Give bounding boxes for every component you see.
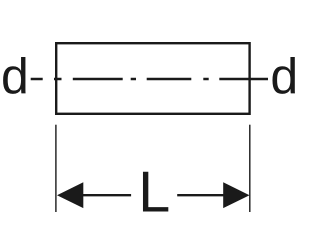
extension line left — [55, 125, 57, 212]
svg-text:L: L — [138, 160, 170, 224]
dimension arrow right — [223, 182, 249, 208]
dimension line right segment — [177, 194, 224, 196]
extension line right — [249, 125, 251, 212]
dimension arrow left — [57, 182, 83, 208]
center axis dash-dot line — [31, 78, 268, 80]
svg-text:d: d — [270, 49, 298, 105]
cylinder body outline — [56, 43, 249, 114]
svg-text:d: d — [1, 49, 29, 105]
dimension line left segment — [82, 194, 131, 196]
